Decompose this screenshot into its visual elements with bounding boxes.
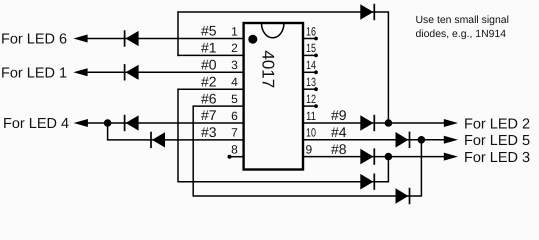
- arrow For LED 2: [444, 119, 458, 127]
- wire bottom route A (#2 to LED 3): [177, 181, 389, 183]
- diode D2 (top route, to LED 2): [360, 4, 374, 20]
- diode D10 (bottom B): [396, 188, 410, 204]
- svg-text:For LED 6: For LED 6: [1, 32, 67, 48]
- diode D3 (to LED 1): [125, 64, 139, 80]
- junction LED5: [418, 136, 426, 144]
- wire pin3 #0 row: [87, 71, 244, 73]
- svg-text:#6: #6: [201, 90, 217, 106]
- svg-text:9: 9: [306, 143, 313, 157]
- arrow For LED 4: [74, 119, 88, 127]
- arrow For LED 5: [444, 136, 458, 144]
- wire pin7 #3 row: [107, 139, 244, 141]
- diode D1 (to LED 6): [125, 30, 139, 46]
- svg-text:13: 13: [306, 75, 316, 89]
- svg-text:#7: #7: [201, 107, 217, 123]
- junction LED3: [385, 153, 393, 161]
- IC notch: [262, 23, 284, 37]
- svg-text:8: 8: [231, 143, 238, 157]
- svg-text:#9: #9: [331, 107, 347, 123]
- pin16 stub: [303, 38, 315, 40]
- IC 4017 body: [244, 23, 303, 170]
- svg-text:#3: #3: [201, 124, 217, 140]
- svg-text:Use ten small signal: Use ten small signal: [416, 15, 509, 26]
- svg-text:#4: #4: [331, 124, 347, 140]
- svg-text:For LED 4: For LED 4: [3, 116, 69, 132]
- diode D8 (#8 to LED 3): [360, 148, 374, 164]
- wire pin11 #9 row: [303, 122, 450, 124]
- svg-text:5: 5: [231, 92, 238, 106]
- svg-text:15: 15: [306, 41, 316, 55]
- svg-text:12: 12: [306, 92, 316, 106]
- svg-text:For LED 2: For LED 2: [464, 116, 530, 132]
- wire vertical top-left (pin2 to top wire): [177, 11, 179, 56]
- wire pin9 #8 row: [303, 156, 450, 158]
- pin8 terminal dot: [228, 155, 232, 159]
- wire pin5 #6 row: [193, 105, 243, 107]
- wire bottom route B (#6 to LED 5): [193, 195, 423, 197]
- arrow For LED 1: [73, 68, 87, 76]
- svg-text:3: 3: [231, 58, 238, 72]
- wire pin2 #1 row: [177, 54, 243, 56]
- svg-text:2: 2: [231, 41, 238, 55]
- svg-text:#0: #0: [201, 57, 217, 73]
- wire pin8 stub: [230, 156, 244, 158]
- arrow For LED 6: [73, 35, 87, 43]
- svg-text:11: 11: [306, 109, 316, 123]
- arrow For LED 3: [444, 153, 458, 161]
- svg-text:4: 4: [231, 75, 238, 89]
- wire pin10 #4 row: [303, 139, 450, 141]
- IC U1 4017 decade counter: [244, 23, 303, 170]
- svg-text:#8: #8: [331, 141, 347, 157]
- wire top route: [177, 11, 389, 13]
- svg-text:#1: #1: [201, 40, 217, 56]
- svg-text:#2: #2: [201, 73, 217, 89]
- svg-text:14: 14: [306, 58, 316, 72]
- svg-text:For LED 5: For LED 5: [464, 133, 530, 149]
- junction LED4: [104, 119, 112, 127]
- diode D6 (#9 to LED 2): [360, 115, 374, 131]
- diode D9 (bottom A): [360, 174, 374, 190]
- wire vertical (LED5 junction down to bottom wire B): [420, 140, 422, 196]
- svg-text:4017: 4017: [259, 50, 278, 88]
- wire pin6 #7 row: [87, 122, 244, 124]
- svg-text:diodes, e.g., 1N914: diodes, e.g., 1N914: [416, 29, 507, 40]
- svg-text:For LED 3: For LED 3: [464, 150, 530, 166]
- pin15 stub: [303, 54, 315, 56]
- wire vertical right (top wire down to LED2 junction): [387, 12, 389, 123]
- wire vertical (LED3 junction down to bottom wire A): [387, 157, 389, 182]
- wire vertical left (pin5 down to bottom wire B): [192, 105, 194, 196]
- wire pin4 #2 row: [177, 88, 243, 90]
- pin14 stub: [303, 71, 315, 73]
- diode D4 (to LED 4 from #7): [125, 115, 139, 131]
- pin13 stub: [303, 88, 315, 90]
- svg-text:#5: #5: [201, 23, 217, 39]
- junction LED2: [385, 119, 393, 127]
- svg-text:For LED 1: For LED 1: [1, 65, 67, 81]
- pin12 stub: [303, 105, 315, 107]
- svg-text:1: 1: [231, 24, 238, 38]
- pin 1 marker dot: [248, 35, 257, 44]
- diode D5 (to LED 4 from #3): [151, 132, 165, 148]
- svg-text:7: 7: [231, 126, 238, 140]
- wire vertical (LED4 junction down to #3 row): [107, 123, 109, 140]
- svg-text:6: 6: [231, 109, 238, 123]
- wire vertical left (pin4 down to bottom wire A): [177, 89, 179, 182]
- diode D7 (#4 to LED 5): [396, 132, 410, 148]
- svg-text:16: 16: [306, 24, 316, 38]
- svg-text:10: 10: [306, 126, 316, 140]
- wire pin1 #5 row: [87, 38, 244, 40]
